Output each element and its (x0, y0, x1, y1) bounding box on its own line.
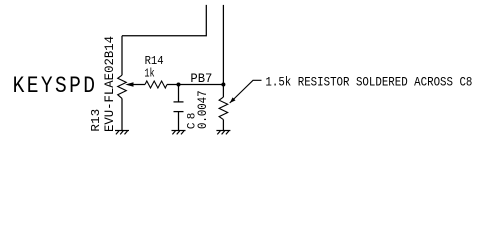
ground (1.5k resistor) (216, 131, 230, 135)
potentiometer R13 body (118, 75, 127, 98)
svg-text:PB7: PB7 (190, 71, 212, 86)
wire top-left horizontal with corner up (122, 5, 206, 36)
svg-text:1.5k RESISTOR SOLDERED ACROSS: 1.5k RESISTOR SOLDERED ACROSS C8 (265, 75, 472, 89)
wire wiper to R14 (133, 84, 145, 86)
resistor 1.5k top lead (222, 85, 224, 98)
annotation leader line (230, 80, 262, 103)
junction dot at PB7 (221, 83, 225, 87)
capacitor C8 plates (174, 101, 184, 103)
wire PB7 horizontal (179, 84, 224, 86)
resistor 1.5k bottom lead (222, 120, 224, 131)
resistor 1.5k body (219, 97, 228, 120)
wiper arrow of R13 (125, 82, 133, 86)
svg-text:1k: 1k (144, 66, 154, 80)
capacitor C8 top lead (178, 85, 180, 102)
resistor R14 right lead (167, 84, 179, 86)
capacitor C8 bottom lead (178, 112, 180, 131)
wire vertical to PB7 junction (222, 5, 224, 85)
resistor R14 body (145, 81, 167, 88)
svg-text:0.0047: 0.0047 (196, 91, 210, 130)
junction dot at C8 tap (177, 83, 181, 87)
potentiometer R13 top lead (121, 36, 123, 75)
ground (C8) (172, 131, 186, 135)
annotation arrowhead (230, 97, 236, 103)
svg-text:R13: R13 (89, 109, 103, 132)
ground (R13) (115, 131, 129, 135)
svg-text:EVU-FLAE02B14: EVU-FLAE02B14 (102, 36, 117, 132)
potentiometer R13 bottom lead (121, 98, 123, 130)
